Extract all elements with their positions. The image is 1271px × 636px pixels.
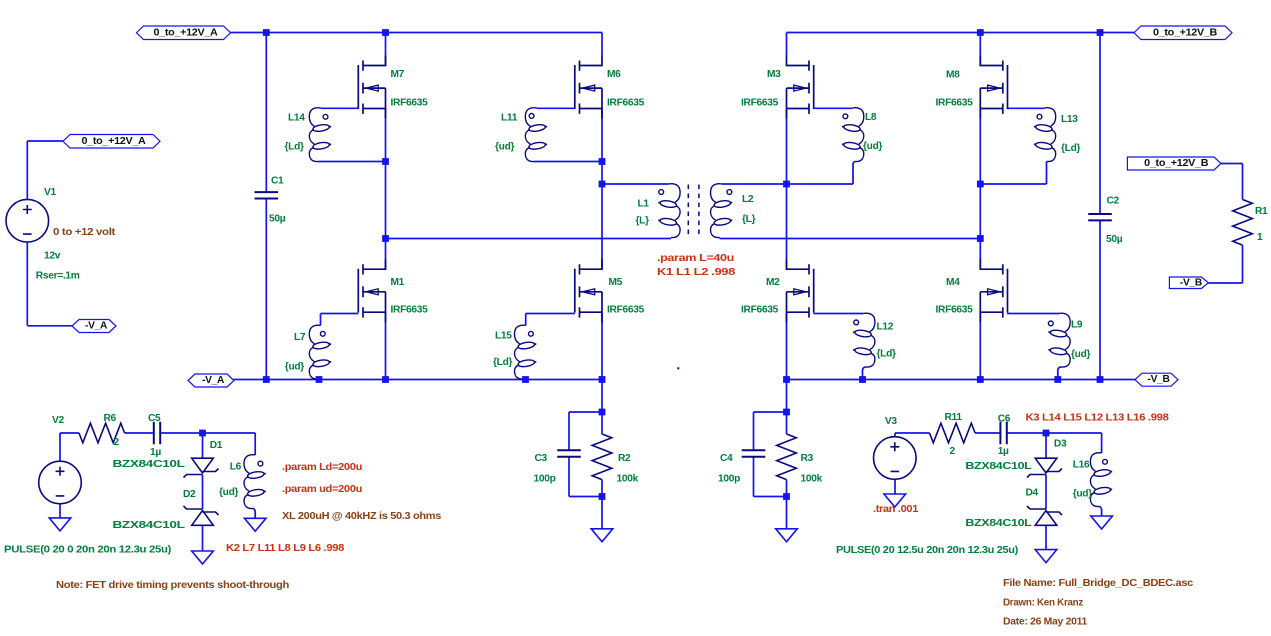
svg-text:R1: R1 xyxy=(1255,206,1268,217)
svg-text:L2: L2 xyxy=(742,194,754,205)
svg-text:Rser=.1m: Rser=.1m xyxy=(36,270,80,281)
svg-text:0_to_+12V_B: 0_to_+12V_B xyxy=(1153,27,1217,38)
svg-text:1µ: 1µ xyxy=(150,447,161,458)
svg-text:{ud}: {ud} xyxy=(863,141,883,152)
svg-text:0_to_+12V_B: 0_to_+12V_B xyxy=(1144,158,1208,169)
svg-text:C1: C1 xyxy=(271,175,284,186)
svg-text:{L}: {L} xyxy=(742,214,756,225)
svg-text:IRF6635: IRF6635 xyxy=(741,98,779,109)
svg-text:-V_B: -V_B xyxy=(1147,374,1169,385)
svg-text:M5: M5 xyxy=(609,277,623,288)
svg-text:L15: L15 xyxy=(495,330,512,341)
svg-text:-V_A: -V_A xyxy=(202,375,225,386)
svg-text:M3: M3 xyxy=(767,69,781,80)
svg-text:-V_A: -V_A xyxy=(85,321,108,332)
svg-text:M2: M2 xyxy=(766,277,780,288)
svg-text:D1: D1 xyxy=(210,440,223,451)
svg-text:C5: C5 xyxy=(148,413,161,424)
svg-text:R3: R3 xyxy=(801,453,814,464)
svg-text:V2: V2 xyxy=(52,415,64,426)
svg-text:M6: M6 xyxy=(607,69,621,80)
svg-text:K1 L1 L2 .998: K1 L1 L2 .998 xyxy=(657,267,736,278)
svg-text:C6: C6 xyxy=(998,413,1011,424)
svg-text:V3: V3 xyxy=(885,416,897,427)
svg-text:0_to_+12V_A: 0_to_+12V_A xyxy=(82,136,147,147)
svg-text:C3: C3 xyxy=(535,453,548,464)
svg-text:{ud}: {ud} xyxy=(495,141,515,152)
svg-text:D2: D2 xyxy=(183,489,196,500)
svg-text:{ud}: {ud} xyxy=(1073,488,1093,499)
svg-text:.param L=40u: .param L=40u xyxy=(657,253,734,264)
svg-text:Note: FET drive timing preven: Note: FET drive timing prevents shoot-th… xyxy=(56,580,289,591)
svg-text:L11: L11 xyxy=(501,112,518,123)
svg-text:0_to_+12V_A: 0_to_+12V_A xyxy=(154,27,219,38)
svg-text:-V_B: -V_B xyxy=(1180,277,1202,288)
svg-text:100k: 100k xyxy=(801,473,823,484)
svg-text:D3: D3 xyxy=(1054,438,1067,449)
svg-text:L7: L7 xyxy=(294,332,306,343)
svg-text:{ud}: {ud} xyxy=(219,487,239,498)
svg-text:L6: L6 xyxy=(230,461,242,472)
svg-text:PULSE(0 20 0 20n 20n 12.3u 25u: PULSE(0 20 0 20n 20n 12.3u 25u) xyxy=(4,544,171,555)
svg-text:12v: 12v xyxy=(44,250,61,261)
svg-text:R2: R2 xyxy=(618,453,631,464)
svg-text:{ud}: {ud} xyxy=(285,361,305,372)
svg-text:File Name: Full_Bridge_DC_BDEC: File Name: Full_Bridge_DC_BDEC.asc xyxy=(1003,578,1194,589)
svg-text:L1: L1 xyxy=(638,198,650,209)
svg-text:2: 2 xyxy=(950,446,956,457)
svg-text:PULSE(0 20 12.5u 20n 20n 12.3u: PULSE(0 20 12.5u 20n 20n 12.3u 25u) xyxy=(836,545,1018,556)
svg-text:L14: L14 xyxy=(288,112,305,123)
svg-text:{L}: {L} xyxy=(636,215,650,226)
svg-text:2: 2 xyxy=(114,437,120,448)
svg-text:{Ld}: {Ld} xyxy=(493,357,513,368)
svg-text:C2: C2 xyxy=(1107,195,1120,206)
svg-text:R11: R11 xyxy=(945,412,963,423)
svg-text:.param Ld=200u: .param Ld=200u xyxy=(282,462,362,473)
svg-text:IRF6635: IRF6635 xyxy=(741,305,779,316)
svg-text:L12: L12 xyxy=(877,321,894,332)
svg-text:50µ: 50µ xyxy=(1106,234,1123,245)
svg-text:M7: M7 xyxy=(391,69,405,80)
svg-text:IRF6635: IRF6635 xyxy=(607,98,645,109)
svg-text:M8: M8 xyxy=(946,69,960,80)
svg-text:0 to +12 volt: 0 to +12 volt xyxy=(53,227,116,238)
svg-text:IRF6635: IRF6635 xyxy=(936,97,974,108)
svg-text:.param ud=200u: .param ud=200u xyxy=(282,484,362,495)
svg-text:BZX84C10L: BZX84C10L xyxy=(965,461,1031,472)
svg-text:K2 L7 L11 L8 L9 L6 .998: K2 L7 L11 L8 L9 L6 .998 xyxy=(226,543,345,554)
svg-text:L16: L16 xyxy=(1073,459,1090,470)
svg-text:1: 1 xyxy=(1257,232,1263,243)
svg-text:M4: M4 xyxy=(946,277,960,288)
svg-text:L9: L9 xyxy=(1071,319,1083,330)
svg-text:D4: D4 xyxy=(1026,487,1039,498)
svg-text:100p: 100p xyxy=(718,473,740,484)
svg-text:XL 200uH @ 40kHZ is 50.3 ohms: XL 200uH @ 40kHZ is 50.3 ohms xyxy=(282,511,442,522)
svg-text:{Ld}: {Ld} xyxy=(285,141,305,152)
svg-text:R6: R6 xyxy=(104,413,117,424)
svg-text:{Ld}: {Ld} xyxy=(1061,143,1081,154)
svg-text:L8: L8 xyxy=(865,112,877,123)
svg-text:{Ld}: {Ld} xyxy=(877,348,897,359)
svg-text:{ud}: {ud} xyxy=(1071,349,1091,360)
svg-text:50µ: 50µ xyxy=(269,213,286,224)
svg-text:Date: 26 May 2011: Date: 26 May 2011 xyxy=(1003,616,1088,627)
svg-text:.tran .001: .tran .001 xyxy=(873,504,919,515)
svg-text:M1: M1 xyxy=(391,277,405,288)
svg-text:V1: V1 xyxy=(44,187,56,198)
svg-text:K3 L14 L15 L12 L13 L16 .998: K3 L14 L15 L12 L13 L16 .998 xyxy=(1026,412,1170,423)
svg-text:BZX84C10L: BZX84C10L xyxy=(113,520,185,531)
svg-text:100p: 100p xyxy=(534,473,556,484)
svg-text:1µ: 1µ xyxy=(998,446,1009,457)
svg-text:Drawn: Ken Kranz: Drawn: Ken Kranz xyxy=(1003,597,1083,608)
svg-text:L13: L13 xyxy=(1061,114,1078,125)
svg-text:BZX84C10L: BZX84C10L xyxy=(965,518,1031,529)
svg-text:100k: 100k xyxy=(617,473,639,484)
svg-text:C4: C4 xyxy=(720,453,733,464)
svg-text:IRF6635: IRF6635 xyxy=(607,305,645,316)
svg-text:IRF6635: IRF6635 xyxy=(391,305,429,316)
svg-text:IRF6635: IRF6635 xyxy=(936,305,974,316)
svg-text:IRF6635: IRF6635 xyxy=(391,98,429,109)
svg-text:BZX84C10L: BZX84C10L xyxy=(113,459,185,470)
